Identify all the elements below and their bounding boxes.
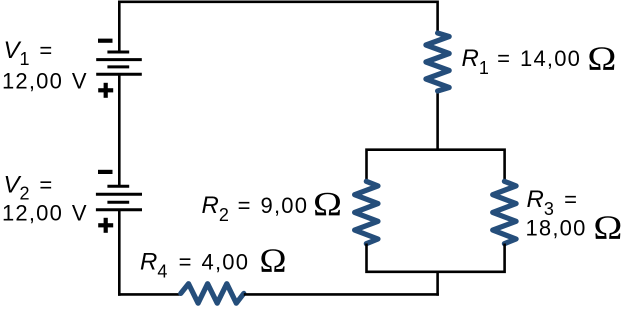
battery V1 (96, 52, 142, 74)
svg-text:12,00 V: 12,00 V (2, 68, 88, 93)
wire bottom right (R4 to stem) (244, 293, 439, 296)
battery V1 plus sign (98, 83, 113, 98)
svg-text:12,00 V: 12,00 V (2, 201, 88, 226)
svg-text:R3 =: R3 = (527, 186, 579, 219)
svg-text:R4 = 4,00 Ω: R4 = 4,00 Ω (140, 242, 286, 281)
wire parallel box top (367, 150, 505, 182)
wire top loop (left riser, top wire, right riser) (119, 2, 437, 51)
svg-text:R1 = 14,00 Ω: R1 = 14,00 Ω (462, 41, 617, 79)
battery V2 plus sign (98, 218, 113, 233)
wire parallel box bottom (367, 244, 505, 272)
battery V1 minus sign (98, 39, 113, 43)
wire left lower (V2 to bottom) (118, 210, 121, 296)
svg-text:V1 =: V1 = (4, 37, 54, 69)
wire right riser lower (R1 to box top) (436, 91, 439, 151)
svg-text:R2 = 9,00 Ω: R2 = 9,00 Ω (202, 186, 342, 225)
wire left middle (V1 to V2) (118, 74, 121, 186)
svg-text:18,00 Ω: 18,00 Ω (526, 210, 621, 247)
battery V2 (96, 186, 142, 209)
wire bottom left (to R4) (118, 293, 181, 296)
wire stem (box bottom to bottom wire) (436, 272, 439, 296)
resistor R2 (355, 181, 378, 243)
battery V2 minus sign (98, 170, 113, 174)
svg-text:V2 =: V2 = (4, 172, 54, 204)
resistor R4 (181, 284, 244, 304)
resistor R1 (426, 33, 449, 91)
resistor R3 (493, 181, 516, 243)
